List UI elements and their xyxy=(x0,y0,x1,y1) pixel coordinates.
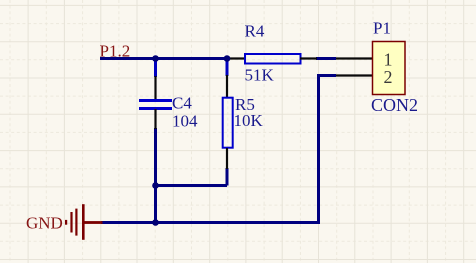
capacitor C4 xyxy=(139,76,172,129)
wire vertical R5 bottom stub xyxy=(226,168,229,186)
svg-text:GND: GND xyxy=(26,214,63,233)
junction at GND wire xyxy=(152,219,159,226)
resistor R4 xyxy=(228,54,317,64)
junction at R4/R5 xyxy=(224,55,231,62)
svg-text:2: 2 xyxy=(384,67,393,87)
svg-text:C4: C4 xyxy=(172,94,192,113)
wire vertical P1 pin2 down xyxy=(317,74,320,223)
svg-text:10K: 10K xyxy=(234,111,264,130)
wire horizontal mid R5 bottom xyxy=(156,184,228,187)
wire GND horizontal bottom xyxy=(101,221,320,224)
svg-text:P1.2: P1.2 xyxy=(100,42,131,61)
wire vertical R5 top stub xyxy=(226,57,229,76)
wire R4 right to P1 pin1 xyxy=(316,57,336,60)
wire C4 bottom vertical to bottom junction xyxy=(154,128,157,224)
svg-text:CON2: CON2 xyxy=(371,95,418,115)
wire P1 pin2 horizontal xyxy=(317,74,336,77)
resistor R5 xyxy=(223,75,233,169)
wire net P1.2 top horizontal xyxy=(100,57,229,60)
svg-text:P1: P1 xyxy=(373,19,391,38)
svg-text:104: 104 xyxy=(172,112,198,131)
ground symbol GND xyxy=(65,204,103,240)
svg-text:51K: 51K xyxy=(245,66,275,85)
svg-text:R4: R4 xyxy=(245,22,265,41)
connector P1 xyxy=(336,42,405,95)
junction at P1.2/C4 xyxy=(152,55,159,62)
wire vertical stub to C4 xyxy=(154,57,157,77)
junction at C4/R5 bottom xyxy=(152,182,159,189)
